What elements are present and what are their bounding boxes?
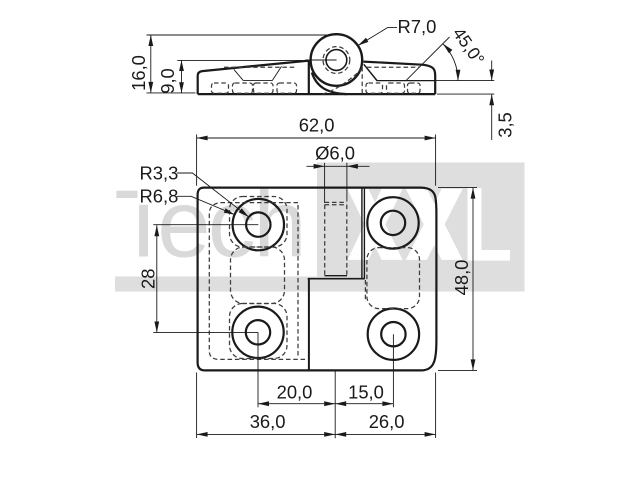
dimension 45,0 degrees bbox=[406, 24, 489, 81]
svg-text:9,0: 9,0 bbox=[157, 68, 178, 94]
dimension 9,0 bbox=[157, 60, 302, 93]
dimension 28 bbox=[137, 225, 159, 332]
svg-text:Ø6,0: Ø6,0 bbox=[315, 143, 355, 164]
dimension 36,0 bbox=[197, 373, 436, 439]
svg-text:R6,8: R6,8 bbox=[140, 186, 179, 207]
right leaf hidden edge bbox=[361, 67, 363, 94]
svg-text:62,0: 62,0 bbox=[299, 115, 335, 136]
hole top-right bbox=[367, 197, 418, 248]
svg-text:36,0: 36,0 bbox=[250, 411, 286, 432]
dimension diameter 6,0 bbox=[307, 143, 370, 204]
top view right leaf outline bbox=[363, 62, 435, 95]
label R7,0 with leader bbox=[358, 16, 437, 45]
label R3,3 with leader bbox=[138, 162, 249, 217]
right leaf counterbore hidden rects bbox=[366, 83, 420, 93]
hidden edge right short bbox=[364, 280, 366, 302]
svg-text:16,0: 16,0 bbox=[128, 55, 149, 91]
hole centerlines bbox=[153, 225, 393, 439]
top view bottom edge bbox=[198, 93, 436, 95]
hole top-left bbox=[233, 199, 284, 250]
svg-text:R7,0: R7,0 bbox=[398, 16, 437, 37]
label R6,8 with leader bbox=[138, 186, 235, 215]
watermark XXL letters bbox=[347, 188, 510, 261]
hidden slot rect upper-left bbox=[230, 197, 288, 248]
svg-text:3,5: 3,5 bbox=[495, 112, 516, 138]
dimension 3,5 bbox=[435, 61, 515, 141]
svg-text:28: 28 bbox=[137, 269, 158, 289]
front view slot bottom lines bbox=[308, 276, 365, 279]
top view left leaf outline bbox=[198, 61, 309, 95]
svg-text:26,0: 26,0 bbox=[369, 411, 405, 432]
pin hole solid circle bbox=[326, 50, 347, 71]
right leaf top surface line bbox=[377, 80, 435, 82]
hidden pin hole dashed lines bbox=[325, 202, 347, 275]
dimension 26,0 bbox=[335, 411, 435, 437]
dimension 62,0 bbox=[197, 115, 436, 186]
left leaf countersink funnel bbox=[234, 66, 282, 80]
dimension 15,0 bbox=[335, 381, 393, 406]
front view leaf split vertical bbox=[308, 279, 310, 371]
pin hole thread dashed circle bbox=[323, 47, 350, 74]
dimension 20,0 bbox=[258, 381, 335, 406]
svg-text:15,0: 15,0 bbox=[348, 381, 384, 402]
front view body outline bbox=[198, 188, 437, 371]
dimension 16,0 bbox=[128, 35, 336, 93]
watermark Tech text bbox=[114, 171, 306, 278]
hidden slot rect right bbox=[367, 248, 420, 309]
dimension 48,0 bbox=[438, 188, 477, 371]
svg-text:48,0: 48,0 bbox=[451, 260, 472, 296]
hidden slot rect middle-left bbox=[231, 247, 285, 304]
hole bottom-right bbox=[368, 309, 419, 360]
front view knuckle slot double line bbox=[362, 188, 365, 279]
knuckle circle R7 bbox=[311, 34, 363, 86]
top view leaf-knuckle vertical edge bbox=[308, 61, 310, 95]
watermark gray box bbox=[115, 163, 525, 292]
left leaf counterbore hidden rects bbox=[212, 83, 297, 93]
hidden leaf contour dashed bbox=[209, 203, 305, 360]
right leaf hidden top line bbox=[367, 66, 419, 68]
knuckle curl hidden curve bbox=[323, 70, 362, 95]
left leaf hidden top line bbox=[224, 66, 296, 68]
svg-text:R3,3: R3,3 bbox=[140, 162, 179, 183]
right leaf chamfer edge bbox=[364, 64, 378, 81]
hole bottom-left bbox=[232, 307, 283, 358]
knuckle curl solid curve bbox=[312, 73, 347, 95]
svg-text:20,0: 20,0 bbox=[277, 381, 313, 402]
knuckle centerline bbox=[306, 59, 337, 61]
hidden slot rect lower-left bbox=[230, 304, 288, 359]
